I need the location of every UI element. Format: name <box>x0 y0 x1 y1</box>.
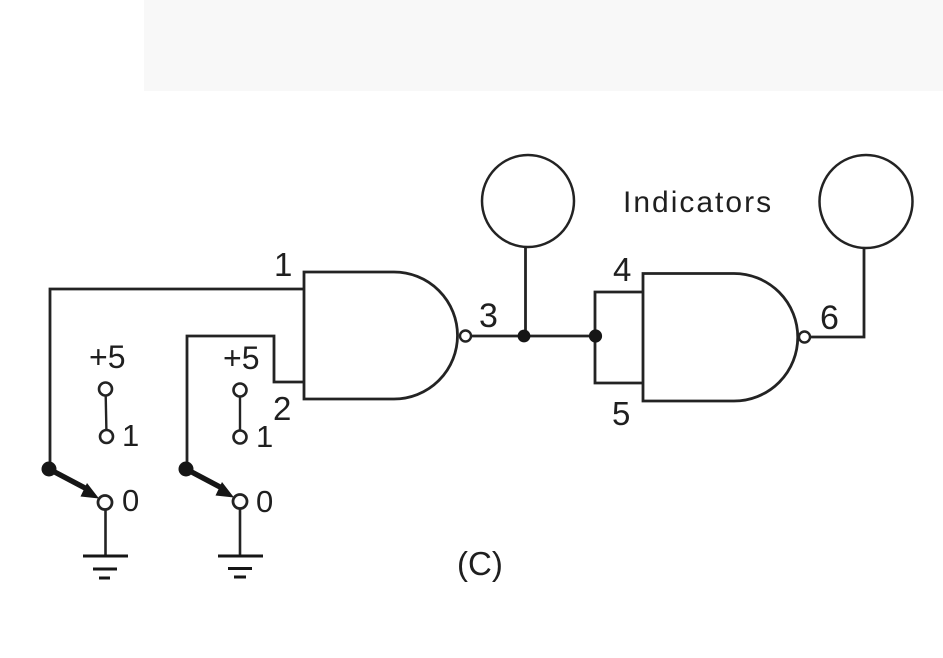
svg-text:2: 2 <box>273 390 291 427</box>
switch S2 contact 1 lower <box>234 431 247 444</box>
wire indicator DS1 drop <box>524 247 527 336</box>
wire input bracket of U2 <box>595 292 643 383</box>
wire S2 contact 0 to ground <box>239 509 242 557</box>
NAND gate U1 output bubble <box>460 331 471 342</box>
svg-text:1: 1 <box>122 418 139 453</box>
switch S1 contact 0 <box>98 496 112 510</box>
indicator lamp DS1 <box>482 155 574 247</box>
svg-text:+5: +5 <box>89 339 125 375</box>
switch S2 contact +5 upper <box>234 384 247 397</box>
indicator lamp DS2 <box>820 155 913 248</box>
svg-text:5: 5 <box>612 395 630 432</box>
switch S1 pole <box>42 462 57 477</box>
wire node 6 output of U2 to indicator DS2 <box>810 248 864 337</box>
wire node 3 output of U1 <box>471 335 596 338</box>
switch S1 contact 1 lower <box>100 430 113 443</box>
svg-text:1: 1 <box>256 419 273 454</box>
switch S2 contact 0 <box>233 495 247 509</box>
svg-text:0: 0 <box>122 483 139 518</box>
wire pin1 from switch1 to gate U1 <box>50 289 304 469</box>
switch S2 pole <box>179 462 194 477</box>
svg-text:1: 1 <box>274 246 292 283</box>
wire between S2 contacts <box>239 397 241 431</box>
NAND gate U1 body <box>304 272 458 399</box>
ground GND1 <box>83 556 128 578</box>
wire pin2 from switch2 to gate U1 <box>187 336 304 469</box>
switch S2 arm arrow <box>186 469 220 487</box>
svg-text:3: 3 <box>479 297 498 335</box>
junction node at U2 inputs <box>589 329 602 342</box>
wire S1 contact 0 to ground <box>104 510 107 557</box>
svg-text:+5: +5 <box>223 340 259 376</box>
svg-text:(C): (C) <box>457 545 503 582</box>
switch S1 arm arrow <box>49 469 85 488</box>
ground GND2 <box>218 556 263 577</box>
svg-text:6: 6 <box>820 299 839 337</box>
junction node 3 <box>518 330 531 343</box>
svg-text:0: 0 <box>256 484 273 519</box>
NAND gate U2 body <box>643 274 798 402</box>
scan tint strip top-right <box>144 0 943 91</box>
NAND gate U2 output bubble <box>799 332 810 343</box>
switch S1 contact +5 upper <box>99 383 112 396</box>
svg-text:4: 4 <box>613 251 631 288</box>
wire between S1 contacts <box>104 396 107 431</box>
svg-text:Indicators: Indicators <box>623 186 773 219</box>
